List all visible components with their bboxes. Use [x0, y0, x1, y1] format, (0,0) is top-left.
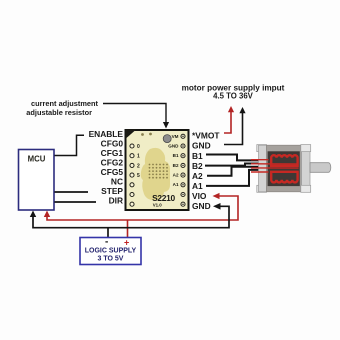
wire VMOT to supply + (red, up arrow): [224, 106, 234, 133]
svg-text:GND: GND: [192, 201, 211, 211]
svg-text:B1: B1: [173, 153, 179, 158]
svg-text:A2: A2: [192, 171, 203, 181]
right flange: [302, 145, 311, 192]
node: driver left pin labels: [89, 129, 124, 206]
svg-text:A1: A1: [192, 181, 203, 191]
shaft: [310, 163, 331, 173]
svg-text:GND: GND: [168, 144, 179, 149]
wire: GND black return to MCU and logic -: [30, 203, 229, 237]
wire A2 to motor: [207, 167, 260, 176]
svg-text:B1: B1: [192, 151, 203, 161]
wire B1 to motor: [206, 155, 260, 161]
svg-text:LOGIC SUPPLY: LOGIC SUPPLY: [85, 248, 137, 255]
svg-text:2: 2: [137, 163, 140, 169]
board silk labels: [137, 144, 140, 179]
left flange tabs: [257, 145, 267, 152]
svg-text:adjustable resistor: adjustable resistor: [26, 108, 92, 117]
via dots: [149, 164, 168, 179]
bottom coil: [271, 172, 297, 183]
svg-text:VIO: VIO: [192, 191, 207, 201]
svg-text:B2: B2: [173, 163, 179, 168]
svg-text:VM: VM: [172, 134, 179, 139]
MCU U1: [19, 150, 55, 211]
svg-text:CFG0: CFG0: [101, 138, 124, 148]
svg-text:DIR: DIR: [109, 195, 123, 205]
left flange: [259, 145, 267, 192]
svg-text:A1: A1: [173, 182, 179, 187]
svg-text:CFG1: CFG1: [101, 148, 124, 158]
svg-text:3 TO 5V: 3 TO 5V: [98, 256, 124, 263]
wire: MCU to ENABLE: [55, 135, 85, 155]
potentiometer R_adj: [163, 135, 171, 143]
node: driver right pin labels: [192, 130, 220, 211]
svg-text:GND: GND: [192, 141, 211, 151]
svg-text:5: 5: [137, 173, 140, 179]
right pin holes: [181, 134, 185, 206]
svg-text:CFG5: CFG5: [101, 167, 124, 177]
dark interior: [268, 151, 300, 186]
svg-text:CFG2: CFG2: [101, 157, 124, 167]
svg-text:-: -: [105, 237, 108, 248]
svg-text:MCU: MCU: [28, 155, 46, 164]
node: current adjustment label: [26, 99, 98, 117]
svg-text:1: 1: [137, 154, 140, 160]
svg-text:B2: B2: [192, 161, 203, 171]
top coil: [271, 155, 297, 166]
top edge holes: [141, 133, 144, 136]
chip blob: [141, 148, 170, 200]
logic supply PS1: [80, 237, 141, 265]
svg-text:V1.0: V1.0: [153, 203, 163, 208]
wire B2 to motor: [205, 164, 260, 166]
svg-text:current adjustment: current adjustment: [31, 99, 98, 108]
wire: label to potentiometer (down arrow): [103, 104, 169, 129]
svg-text:A2: A2: [173, 173, 179, 178]
wire: VIO red return to MCU and logic +: [44, 193, 238, 237]
body: [267, 145, 302, 192]
branch to logic supply +: [127, 220, 129, 237]
corner notch: [126, 130, 137, 139]
wire A1 to motor: [206, 170, 260, 186]
left pin holes: [130, 144, 134, 206]
svg-text:NC: NC: [111, 176, 123, 186]
branch to logic supply -: [107, 228, 109, 237]
stepper motor M1: [251, 145, 331, 193]
center red taps: [251, 160, 299, 172]
svg-text:STEP: STEP: [101, 186, 123, 196]
stepper driver board S2210: [126, 130, 189, 211]
svg-text:+: +: [124, 238, 129, 248]
wire: MCU to DIR: [55, 201, 97, 203]
svg-text:ENABLE: ENABLE: [89, 129, 124, 139]
node: motor power supply label: [182, 84, 285, 101]
wire GND to supply - (black, up arrow): [224, 107, 246, 145]
svg-text:*VMOT: *VMOT: [192, 130, 220, 140]
wire: MCU to STEP: [55, 191, 89, 193]
svg-text:4.5 TO 36V: 4.5 TO 36V: [213, 92, 254, 101]
svg-text:0: 0: [137, 144, 140, 150]
